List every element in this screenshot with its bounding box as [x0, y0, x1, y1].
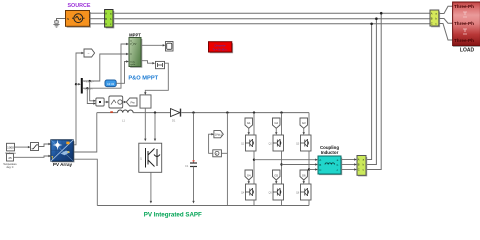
repeating sequence block	[109, 96, 123, 108]
wire coupling b to meas	[341, 164, 356, 166]
wire G3 to gate	[303, 128, 305, 133]
svg-text:G6: G6	[302, 173, 306, 177]
node vdc tap	[226, 111, 228, 113]
wire G6 to gate	[303, 180, 305, 183]
svg-text:D1: D1	[172, 119, 176, 123]
node capacitor tap	[192, 111, 194, 113]
wire MPPT duty to memory	[141, 61, 154, 64]
voltage measurement block	[213, 150, 228, 157]
svg-text:deg. C: deg. C	[6, 166, 13, 169]
svg-text:A: A	[358, 158, 360, 162]
from tag G2	[273, 118, 281, 128]
node leg2 mid	[280, 163, 282, 165]
wire G2 to gate	[275, 128, 277, 133]
wire Q5 emitter to bottom rail	[281, 200, 283, 206]
wire PV m up to goto tag	[74, 53, 83, 145]
IGBT Q3	[296, 135, 311, 151]
wire bus to Q2 collector	[281, 113, 283, 135]
source block (three-phase programmable voltage source)	[66, 11, 91, 28]
diode D1	[171, 109, 181, 117]
three-phase V-I measurement (source side)	[105, 10, 114, 28]
svg-text:PV Array: PV Array	[53, 162, 73, 167]
saturation block	[31, 143, 39, 151]
svg-text:12:34: 12:34	[107, 82, 114, 86]
svg-text:MPPT: MPPT	[129, 32, 141, 37]
boost IGBT block Q	[139, 143, 162, 172]
wire G4 to gate	[248, 180, 250, 183]
wire Q2 emitter to mid	[281, 151, 283, 184]
three-phase V-I measurement (load side)	[430, 10, 440, 27]
three-phase V-I measurement (filter side)	[357, 156, 367, 176]
svg-text:Ts = 5e-06 s.: Ts = 5e-06 s.	[213, 47, 228, 51]
IGBT Q4	[241, 184, 256, 200]
wire comparator to boost IGBT gate	[144, 108, 146, 140]
digital clock block	[105, 80, 116, 87]
wire Q6 emitter to bottom rail	[308, 200, 310, 206]
svg-text:C: C	[431, 22, 433, 26]
wire vm to goto vdc	[209, 134, 213, 153]
constant 1000 (irradiance)	[7, 143, 15, 151]
from tag G6	[300, 170, 308, 180]
wire MPPT to scope	[141, 44, 164, 46]
ground	[53, 21, 59, 27]
goto tag PV	[84, 49, 95, 57]
svg-text:Inductor: Inductor	[321, 150, 339, 155]
scope	[166, 42, 174, 52]
constant 25 (temperature)	[7, 154, 14, 161]
wire memory to PWM comparator	[145, 63, 168, 94]
svg-text:Three-Ph: Three-Ph	[454, 21, 474, 26]
wire saturation to PV array Ir	[39, 144, 51, 147]
wire Q1 emitter to mid	[253, 151, 255, 184]
wire Q4 emitter to bottom rail	[253, 200, 255, 206]
wire boost IGBT emitter to bottom rail	[150, 172, 152, 202]
svg-text:PV Integrated SAPF: PV Integrated SAPF	[144, 211, 202, 218]
svg-text:1000: 1000	[7, 146, 14, 150]
bus selector bar	[81, 78, 83, 94]
svg-text:A: A	[105, 11, 107, 15]
svg-text:C: C	[358, 168, 360, 172]
wire V branch to product	[90, 81, 95, 101]
node leg1 tap	[253, 111, 255, 113]
wire bus to Q1 collector	[253, 113, 255, 135]
svg-text:G2: G2	[274, 121, 278, 125]
IGBT Q6	[296, 184, 311, 200]
wire boost top rail left	[97, 112, 118, 114]
node V branch	[89, 80, 91, 82]
wire coupling c to meas	[341, 169, 356, 171]
node boost switch	[154, 111, 156, 113]
svg-text:Three-Ph: Three-Ph	[454, 38, 474, 43]
node leg3 mid	[308, 168, 310, 170]
wire 1000 to saturation	[15, 146, 30, 148]
wire Q3 emitter to mid	[308, 151, 310, 184]
wire product to repeating sequence	[104, 101, 108, 103]
svg-text:G1: G1	[247, 121, 251, 125]
IGBT Q5	[269, 184, 284, 200]
wire to goto Pw	[123, 101, 126, 103]
svg-text:~: ~	[88, 52, 90, 56]
svg-text:[Vdc]: [Vdc]	[215, 133, 222, 137]
svg-text:A: A	[319, 158, 321, 162]
svg-text:Three-Ph: Three-Ph	[454, 4, 474, 9]
wire riser phase C	[366, 13, 381, 169]
wire leg2 mid to coupling B	[282, 164, 317, 166]
node riser C on bus A	[380, 12, 383, 15]
wire inductor to diode	[133, 112, 170, 114]
wire measurement to load phase C	[439, 24, 453, 41]
wire PV minus to bottom rail	[74, 159, 97, 205]
from tag G3	[300, 118, 308, 128]
wire branch to bus selector	[76, 83, 80, 85]
dc link capacitor C1	[185, 113, 197, 204]
wire riser phase B	[366, 19, 376, 165]
wire source to measurement C	[90, 23, 105, 25]
wire bus C	[113, 23, 430, 25]
memory block	[156, 61, 165, 68]
goto tag Pw	[126, 98, 137, 106]
node I branch	[86, 87, 88, 89]
wire clock to MPPT	[116, 62, 128, 84]
node leg2 tap	[280, 111, 282, 113]
wire selector V out	[83, 54, 128, 81]
svg-text:C: C	[105, 22, 107, 26]
goto tag Vdc	[214, 131, 223, 138]
node leg1 mid	[253, 159, 255, 161]
svg-text:SOURCE: SOURCE	[67, 3, 90, 9]
wire bus to boost IGBT collector	[154, 113, 156, 141]
svg-text:B: B	[358, 163, 360, 167]
wire bottom rail	[97, 205, 309, 207]
wire diode to inverter bus	[181, 112, 309, 114]
wire bus A	[113, 12, 430, 14]
svg-text:G4: G4	[247, 173, 251, 177]
svg-text:25: 25	[8, 156, 12, 160]
node riser A on bus C	[370, 23, 373, 26]
wire leg3 mid to coupling C	[309, 169, 317, 171]
wire measurement to load phase B	[439, 19, 453, 24]
svg-text:B: B	[431, 17, 433, 21]
wire 25 to PV array T	[14, 156, 51, 157]
wire vdc vertical	[226, 113, 228, 206]
wire riser phase A	[366, 24, 372, 160]
powergui block	[209, 42, 233, 53]
inductor L1	[118, 110, 134, 113]
wire source to measurement A	[90, 12, 105, 14]
wire G5 to gate	[275, 180, 277, 183]
wire source to measurement B	[90, 18, 105, 20]
wire selector I out	[83, 44, 128, 88]
svg-text:P&O MPPT: P&O MPPT	[128, 76, 158, 82]
wire bus to Q3 collector	[308, 113, 310, 135]
svg-text:LOAD: LOAD	[460, 48, 475, 54]
coupling inductor block	[318, 156, 342, 175]
svg-text:G3: G3	[302, 121, 306, 125]
wire G1 to gate	[248, 128, 250, 133]
svg-text:Ir: Ir	[130, 53, 132, 56]
from tag G5	[273, 170, 281, 180]
wire leg1 mid to coupling A	[254, 159, 317, 161]
from tag G4	[245, 170, 253, 180]
wire bus B	[113, 18, 430, 20]
svg-text:Discrete: Discrete	[214, 43, 225, 47]
wire measurement to load phase A	[439, 6, 453, 13]
wire coupling a to meas	[341, 159, 356, 161]
node riser B on bus B	[375, 17, 378, 20]
node PV m branch	[75, 83, 77, 85]
current sensor tick	[110, 111, 113, 113]
IGBT Q1	[241, 135, 256, 151]
from tag G1	[245, 118, 253, 128]
svg-text:C1: C1	[185, 164, 189, 168]
IGBT Q2	[269, 135, 284, 151]
svg-text:N: N	[67, 17, 69, 21]
svg-text:cycle: cycle	[130, 64, 136, 66]
product block	[96, 98, 104, 106]
svg-text:P_PV: P_PV	[130, 43, 137, 46]
svg-text:Q: Q	[140, 158, 142, 161]
svg-text:B: B	[319, 163, 321, 167]
svg-text:G5: G5	[274, 173, 278, 177]
svg-text:B: B	[105, 17, 107, 21]
PWM comparator block	[140, 95, 151, 108]
svg-text:A: A	[431, 12, 433, 16]
wire source neutral	[57, 19, 66, 22]
wire PV plus to boost rail	[74, 113, 97, 152]
wire I branch to product	[87, 88, 95, 103]
